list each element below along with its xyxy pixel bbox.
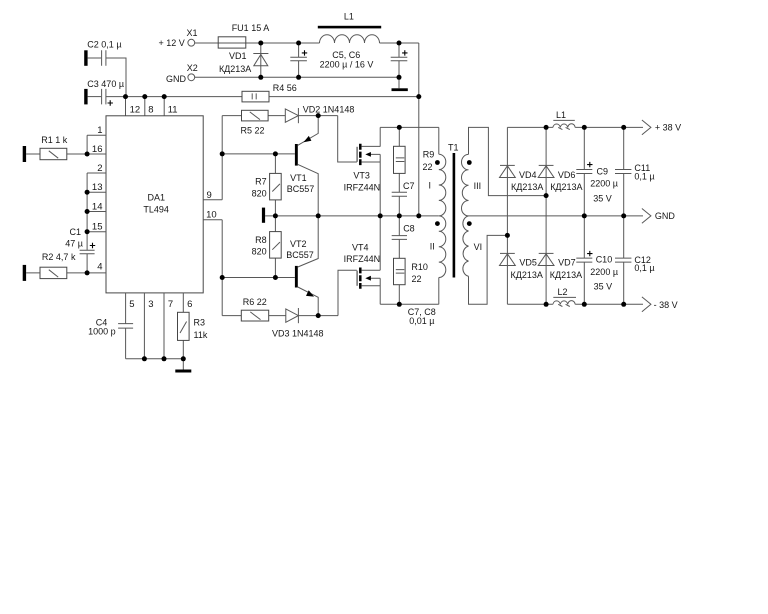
svg-text:VD2 1N4148: VD2 1N4148 bbox=[303, 104, 355, 114]
svg-text:GND: GND bbox=[166, 74, 187, 84]
svg-text:C8: C8 bbox=[403, 224, 415, 234]
svg-text:R4 56: R4 56 bbox=[273, 83, 297, 93]
svg-text:2200 µ: 2200 µ bbox=[590, 178, 618, 188]
svg-text:R7: R7 bbox=[255, 177, 267, 187]
svg-text:X1: X1 bbox=[186, 28, 197, 38]
svg-text:VI: VI bbox=[474, 242, 483, 252]
svg-text:VD1: VD1 bbox=[229, 51, 247, 61]
svg-text:22: 22 bbox=[412, 274, 422, 284]
svg-text:VD7: VD7 bbox=[558, 258, 576, 268]
svg-text:X2: X2 bbox=[187, 63, 198, 73]
svg-text:+ 12 V: + 12 V bbox=[159, 38, 185, 48]
svg-text:9: 9 bbox=[207, 190, 212, 201]
svg-text:R3: R3 bbox=[194, 317, 206, 327]
svg-text:II: II bbox=[430, 242, 435, 252]
svg-text:11k: 11k bbox=[194, 330, 208, 340]
svg-text:13: 13 bbox=[92, 182, 103, 193]
svg-text:DA1: DA1 bbox=[148, 192, 166, 202]
svg-text:КД213А: КД213А bbox=[219, 64, 251, 74]
svg-text:IRFZ44N: IRFZ44N bbox=[344, 254, 381, 264]
svg-text:GND: GND bbox=[655, 211, 676, 221]
svg-text:R1 1 k: R1 1 k bbox=[41, 135, 68, 145]
svg-text:7: 7 bbox=[168, 299, 173, 310]
svg-text:IRFZ44N: IRFZ44N bbox=[344, 182, 381, 192]
svg-text:VD3 1N4148: VD3 1N4148 bbox=[272, 328, 324, 338]
svg-text:5: 5 bbox=[129, 299, 134, 310]
svg-text:2200 µ / 16 V: 2200 µ / 16 V bbox=[320, 60, 374, 70]
svg-text:КД213А: КД213А bbox=[550, 270, 582, 280]
svg-text:22: 22 bbox=[423, 162, 433, 172]
svg-text:R5 22: R5 22 bbox=[241, 126, 265, 136]
svg-text:C5, C6: C5, C6 bbox=[332, 50, 360, 60]
svg-text:VD4: VD4 bbox=[519, 170, 537, 180]
svg-text:1: 1 bbox=[97, 125, 102, 136]
svg-text:0,1 µ: 0,1 µ bbox=[634, 263, 654, 273]
svg-text:T1: T1 bbox=[448, 143, 459, 153]
svg-text:15: 15 bbox=[92, 222, 103, 233]
svg-text:- 38 V: - 38 V bbox=[654, 300, 678, 310]
svg-text:VD5: VD5 bbox=[519, 258, 537, 268]
svg-text:I: I bbox=[428, 181, 431, 191]
svg-text:C7: C7 bbox=[403, 181, 415, 191]
svg-text:BC557: BC557 bbox=[286, 250, 314, 260]
svg-text:820: 820 bbox=[252, 188, 267, 198]
svg-text:3: 3 bbox=[148, 299, 153, 310]
svg-text:14: 14 bbox=[92, 201, 103, 212]
svg-text:2: 2 bbox=[97, 163, 102, 174]
svg-text:12: 12 bbox=[130, 105, 141, 116]
svg-text:0,01 µ: 0,01 µ bbox=[409, 316, 434, 326]
svg-text:L1: L1 bbox=[344, 11, 354, 21]
svg-text:35 V: 35 V bbox=[594, 281, 613, 291]
svg-text:1000 p: 1000 p bbox=[88, 327, 116, 337]
svg-text:C9: C9 bbox=[597, 167, 609, 177]
svg-text:L2: L2 bbox=[557, 287, 567, 297]
svg-text:КД213А: КД213А bbox=[550, 182, 582, 192]
svg-text:R9: R9 bbox=[423, 150, 435, 160]
svg-text:11: 11 bbox=[168, 105, 178, 116]
svg-text:КД213А: КД213А bbox=[511, 182, 543, 192]
svg-text:КД213А: КД213А bbox=[511, 270, 543, 280]
svg-text:VT2: VT2 bbox=[290, 239, 307, 249]
svg-text:2200 µ: 2200 µ bbox=[590, 267, 618, 277]
svg-text:+ 38 V: + 38 V bbox=[655, 123, 681, 133]
svg-text:BC557: BC557 bbox=[287, 184, 315, 194]
svg-text:R2 4,7 k: R2 4,7 k bbox=[42, 252, 76, 262]
svg-text:R6 22: R6 22 bbox=[243, 297, 267, 307]
svg-text:C1: C1 bbox=[69, 227, 81, 237]
svg-text:III: III bbox=[474, 181, 482, 191]
svg-text:4: 4 bbox=[97, 261, 102, 272]
svg-text:VD6: VD6 bbox=[558, 170, 576, 180]
svg-text:16: 16 bbox=[92, 144, 103, 155]
svg-text:10: 10 bbox=[206, 210, 217, 221]
svg-text:820: 820 bbox=[252, 247, 267, 257]
svg-text:TL494: TL494 bbox=[143, 204, 169, 214]
svg-text:R10: R10 bbox=[411, 262, 428, 272]
svg-text:35 V: 35 V bbox=[593, 193, 612, 203]
svg-text:VT4: VT4 bbox=[352, 242, 369, 252]
svg-text:VT3: VT3 bbox=[353, 170, 370, 180]
svg-text:FU1 15 A: FU1 15 A bbox=[232, 23, 270, 33]
svg-text:47 µ: 47 µ bbox=[65, 239, 83, 249]
svg-text:8: 8 bbox=[148, 105, 153, 116]
svg-text:6: 6 bbox=[187, 299, 192, 310]
svg-text:C10: C10 bbox=[596, 255, 613, 265]
svg-text:VT1: VT1 bbox=[290, 173, 307, 183]
svg-text:C2 0,1 µ: C2 0,1 µ bbox=[87, 39, 121, 49]
svg-text:0,1 µ: 0,1 µ bbox=[634, 171, 654, 181]
svg-text:R8: R8 bbox=[255, 235, 267, 245]
svg-text:C3 470 µ: C3 470 µ bbox=[87, 79, 124, 89]
svg-text:L1: L1 bbox=[556, 110, 566, 120]
